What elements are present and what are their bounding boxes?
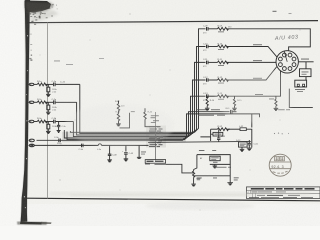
- inductor L52: [239, 126, 246, 131]
- capacitor C13: [203, 93, 208, 102]
- wire: [200, 129, 210, 141]
- ground: [46, 131, 51, 133]
- capacitor C09: [203, 26, 208, 35]
- faint upper labels: [54, 60, 60, 63]
- wire: [56, 121, 74, 123]
- node labels: [149, 117, 163, 147]
- wire: [227, 67, 277, 81]
- wire: [227, 61, 277, 63]
- resistor R16 shunt: [269, 96, 277, 108]
- wire: [56, 83, 80, 85]
- wire jump: [98, 144, 148, 146]
- capacitor C10: [203, 43, 208, 52]
- wire: [197, 155, 230, 165]
- wire: [227, 128, 241, 130]
- wire: [166, 164, 194, 173]
- capacitor C1a: [52, 81, 57, 86]
- pin 3: [292, 63, 296, 67]
- resistor R15 shunt: [225, 96, 242, 110]
- resistor R12: [218, 79, 229, 82]
- wire: [34, 83, 37, 85]
- drawing frame border (decorative): [27, 21, 318, 23]
- resistor R1a: [37, 83, 47, 86]
- ground: [46, 94, 51, 96]
- wire bus1: [80, 47, 206, 134]
- pin 5: [283, 67, 287, 71]
- capacitor C3a: [54, 137, 60, 143]
- ground: [205, 108, 210, 110]
- faint scan mottle (decorative): [30, 22, 310, 210]
- resistor R10: [218, 45, 229, 48]
- wire: [209, 28, 218, 30]
- pin 2: [292, 57, 296, 61]
- resistor R14 shunt: [206, 96, 215, 108]
- wire stub: [137, 145, 146, 158]
- jack J3: [29, 120, 34, 122]
- scan edge artifacts (decorative): [17, 0, 59, 225]
- wire: [45, 83, 53, 85]
- pin 7: [279, 57, 283, 61]
- capacitor C45: [145, 160, 166, 165]
- wire: [229, 164, 231, 182]
- capacitor C3c shunt: [57, 122, 66, 131]
- wire stub: [120, 111, 135, 128]
- capacitor C49 shunt: [122, 145, 134, 158]
- resistor R1b shunt: [47, 84, 58, 94]
- ground: [57, 131, 61, 133]
- ground: [274, 108, 279, 110]
- wire bus3: [73, 80, 205, 137]
- jack J1: [29, 83, 34, 85]
- wire: [211, 128, 218, 130]
- resistor R44 chain: [144, 108, 161, 127]
- ground: [191, 184, 196, 186]
- wire stubs at jacks: [28, 84, 31, 145]
- pin 4: [288, 67, 292, 71]
- jack J2: [29, 101, 34, 103]
- wire: [227, 29, 311, 51]
- bus shading: [62, 132, 186, 143]
- capacitor C3b: [52, 118, 57, 123]
- wire: [289, 89, 313, 108]
- ground: [213, 164, 218, 168]
- ground: [46, 112, 51, 114]
- wire: [227, 47, 277, 57]
- capacitor C12: [203, 77, 208, 86]
- ground: [124, 159, 129, 161]
- resistor R3a: [37, 120, 47, 123]
- wire: [209, 61, 218, 63]
- wire: [45, 101, 53, 103]
- wire: [56, 101, 77, 103]
- wire bus2: [77, 62, 206, 135]
- wire bus0: [70, 29, 205, 133]
- wire: [246, 129, 252, 147]
- resistor R09: [218, 27, 229, 30]
- resistor R13: [218, 95, 229, 98]
- wire: [45, 121, 53, 123]
- node: [228, 129, 229, 130]
- ground: [107, 160, 112, 162]
- wire: [34, 121, 37, 123]
- wire bus4: [64, 96, 205, 138]
- pin 8: [283, 53, 287, 57]
- capacitor C44: [231, 110, 237, 114]
- ground: [227, 183, 233, 185]
- diode D51: [211, 132, 223, 136]
- wire row4 long: [37, 114, 260, 140]
- wire bus5: [67, 112, 230, 140]
- capacitor C48 shunt: [108, 145, 118, 159]
- wire: [227, 71, 281, 96]
- power plug P1: [295, 80, 307, 92]
- test points: [274, 133, 289, 135]
- wire: [209, 95, 218, 97]
- pin 6: [279, 63, 283, 67]
- wire: [305, 62, 307, 69]
- ground: [116, 124, 121, 126]
- capacitor C53: [217, 129, 226, 142]
- wire heavy: [148, 141, 251, 142]
- capacitor C2a: [52, 99, 57, 104]
- wire: [251, 114, 253, 128]
- ground: [240, 147, 245, 151]
- resistor R42 chain: [115, 101, 125, 124]
- keyway: [284, 51, 287, 61]
- jack J5: [29, 144, 34, 147]
- scan speckles: [40, 14, 301, 211]
- wire: [209, 79, 218, 81]
- ground: [232, 108, 237, 110]
- capacitor C55: [248, 140, 259, 148]
- capacitor C11: [203, 59, 208, 68]
- resistor R61: [193, 170, 201, 184]
- resistor R2b shunt: [47, 102, 58, 112]
- resistor R2a: [37, 101, 47, 104]
- wire: [194, 175, 231, 177]
- resistor R3b shunt: [47, 122, 58, 132]
- regulator PS1: [210, 156, 220, 161]
- wire: [298, 61, 313, 63]
- jack J4: [29, 139, 34, 142]
- resistor R11: [218, 61, 229, 64]
- wire: [305, 77, 307, 81]
- wire: [194, 160, 197, 170]
- pin 1: [288, 53, 292, 57]
- diode D52: [236, 140, 247, 147]
- wire: [34, 101, 37, 103]
- wire: [34, 144, 98, 146]
- ground: [247, 148, 252, 150]
- resistor R52: [218, 128, 229, 131]
- capacitor C3d: [79, 144, 84, 151]
- date stamp: [269, 154, 291, 176]
- relay RY1: [300, 69, 312, 77]
- wire: [209, 46, 218, 48]
- wire: [154, 112, 156, 160]
